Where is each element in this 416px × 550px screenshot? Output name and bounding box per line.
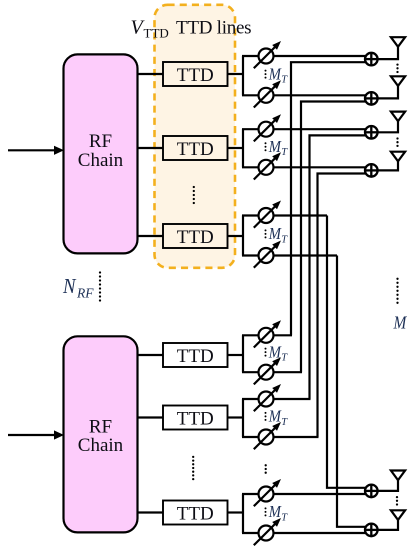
svg-text:M: M — [268, 64, 282, 83]
bus wire up-line V1 — [291, 62, 367, 335]
combiner 5 — [365, 485, 378, 498]
antenna 2 — [378, 76, 406, 98]
antenna 4 — [378, 152, 406, 171]
label M_T group 1 — [265, 64, 289, 85]
label M_T group 4 — [265, 342, 289, 363]
wire TTD 4 to splitter — [228, 354, 244, 356]
input arrow 2 — [8, 430, 64, 439]
antenna 3 — [378, 112, 406, 133]
phase shifter PS3 — [254, 114, 281, 141]
phase shifter PS1 — [254, 41, 281, 68]
combiner 2 — [365, 92, 378, 105]
splitter bracket group 3 — [242, 216, 260, 256]
bus wire up-line V4 — [318, 174, 367, 438]
TTD box 2 — [163, 136, 228, 160]
svg-text:M: M — [268, 502, 282, 521]
phase shifter PS12 — [254, 518, 281, 545]
TTD box 4 — [163, 343, 228, 367]
label M_T group 5 — [265, 407, 289, 428]
bus wire up-line V2 — [301, 102, 367, 373]
svg-text:TTD: TTD — [144, 26, 169, 41]
svg-text:N: N — [62, 274, 76, 298]
phase shifter PS4 — [254, 152, 281, 179]
dots between antennas 3-4 — [396, 137, 398, 147]
wire PS group4 to bus V1 — [273, 334, 292, 336]
wire PS group5 to bus V4 — [273, 436, 318, 438]
wire PS to combiner 2 (upper input) — [273, 94, 367, 96]
svg-text:TTD: TTD — [177, 65, 214, 86]
phase shifter PS6 — [254, 241, 281, 268]
wire RF chain to TTD 1 — [138, 73, 164, 75]
phase shifter PS2 — [254, 80, 281, 107]
svg-text:RF: RF — [89, 131, 112, 152]
wire TTD 1 to splitter — [228, 73, 244, 75]
label N_RF — [62, 274, 94, 301]
antenna 6 — [378, 510, 406, 530]
svg-text:TTD: TTD — [177, 504, 214, 525]
input arrow 1 — [8, 146, 64, 155]
wire PS to combiner 1 (upper input) — [273, 55, 367, 57]
dots between TTD 5 and 6 — [192, 456, 194, 481]
svg-text:RF: RF — [76, 286, 94, 301]
splitter bracket group 4 — [242, 335, 260, 372]
svg-text:TTD: TTD — [177, 409, 214, 430]
antenna 1 — [378, 37, 406, 59]
splitter bracket group 6 — [242, 494, 260, 533]
dots between antennas 5-6 — [396, 496, 398, 506]
svg-text:TTD: TTD — [177, 227, 214, 248]
wire PS11 to combiner 5 (lower input) — [273, 493, 367, 495]
TTD lines dashed container — [155, 5, 236, 268]
wire TTD 3 to splitter — [228, 235, 244, 237]
dots between antennas 1-2 — [396, 63, 398, 73]
label M_T group 2 — [265, 137, 289, 158]
phase shifter PS8 — [254, 357, 281, 384]
TTD box 6 — [163, 501, 228, 525]
dots between TTD 2 and 3 — [193, 186, 195, 204]
combiner 3 — [365, 126, 378, 139]
svg-text:Chain: Chain — [78, 435, 124, 456]
combiner 1 — [365, 53, 378, 66]
wire RF chain to TTD 3 — [138, 235, 164, 237]
RF chain 2 — [64, 336, 138, 532]
svg-text:M: M — [268, 224, 282, 243]
phase shifter PS10 — [254, 422, 281, 449]
svg-text:Chain: Chain — [78, 150, 124, 171]
phase shifter PS9 — [254, 384, 281, 411]
label V_TTD TTD lines — [131, 17, 252, 41]
svg-text:M: M — [393, 313, 408, 333]
combiner 6 — [365, 524, 378, 537]
phase shifter PS11 — [254, 479, 281, 506]
combiner 4 — [365, 164, 378, 177]
wire PS group5 to bus V3 — [273, 398, 310, 400]
dots between PS groups 5 and 6 — [265, 464, 267, 474]
wire PS to combiner 4 (upper input) — [273, 166, 367, 168]
label M_T group 6 — [265, 502, 289, 523]
wire RF chain to TTD 6 — [138, 511, 164, 513]
svg-text:TTD lines: TTD lines — [176, 18, 251, 39]
antenna 5 — [378, 471, 406, 491]
dots between RF chains — [99, 271, 101, 301]
bus wire up-line V3 — [310, 135, 367, 399]
wire PS group4 to bus V2 — [273, 371, 302, 373]
TTD box 5 — [163, 406, 228, 430]
splitter bracket group 2 — [242, 129, 260, 167]
phase shifter PS5 — [254, 201, 281, 228]
wire PS12 to combiner 6 (lower input) — [273, 532, 367, 534]
splitter bracket group 1 — [242, 56, 260, 95]
phase shifter PS7 — [254, 320, 281, 347]
wire RF chain to TTD 2 — [138, 147, 164, 149]
wire TTD 5 to splitter — [228, 416, 244, 418]
wire PS to combiner 3 (upper input) — [273, 128, 367, 130]
svg-text:TTD: TTD — [177, 346, 214, 367]
wire TTD 6 to splitter — [228, 511, 244, 513]
bus wire down-line V5 — [273, 216, 367, 488]
wire RF chain to TTD 5 — [138, 416, 164, 418]
bus wire down-line V6 — [273, 256, 367, 527]
RF chain 1 — [64, 54, 138, 253]
wire RF chain to TTD 4 — [138, 354, 164, 356]
label M_T group 3 — [265, 224, 289, 245]
splitter bracket group 5 — [242, 399, 260, 437]
svg-text:TTD: TTD — [177, 139, 214, 160]
TTD box 3 — [163, 224, 228, 248]
TTD box 1 — [163, 62, 228, 86]
wire TTD 2 to splitter — [228, 147, 244, 149]
label M — [393, 313, 408, 333]
dots among antennas (M) — [396, 278, 398, 304]
